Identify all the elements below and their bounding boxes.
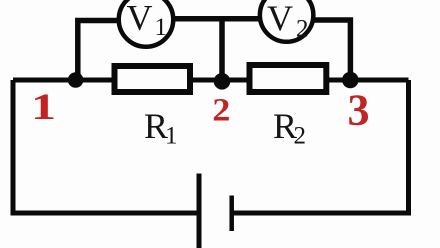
node 2 (junction dot) [214,73,231,90]
svg-text:3: 3 [348,86,370,135]
resistor R1 (box) [115,66,191,92]
svg-text:1: 1 [165,123,178,150]
svg-text:1: 1 [155,14,168,41]
battery short plate [229,196,234,232]
svg-text:1: 1 [31,86,56,127]
svg-text:V: V [267,0,293,38]
wire: main horizontal bus (node1-node2-node3 line) [13,78,409,83]
voltmeter V1 (circle) [119,0,174,47]
svg-text:2: 2 [294,123,307,150]
voltmeter V2 (circle) [260,0,314,42]
battery long plate [197,174,202,248]
svg-text:V: V [127,0,153,38]
svg-text:2: 2 [296,16,309,43]
wire: left loop (left vertical + bottom-left bus to battery) [13,80,199,213]
node 3 (junction dot) [342,72,359,89]
resistor R2 (box) [250,65,327,92]
wire: top wire between V1 and V2 [172,16,261,22]
wire: V2 right terminal to top-right corner and riser down to node 3 [312,20,350,80]
wire: right loop (right vertical + bottom-right bus from battery) [232,80,409,213]
svg-text:2: 2 [212,91,230,128]
wire: riser from node 1 up and to V1 left terminal [78,21,120,81]
node 1 (junction dot) [68,72,84,88]
wire: middle riser from top wire down to node 2 [219,18,225,81]
